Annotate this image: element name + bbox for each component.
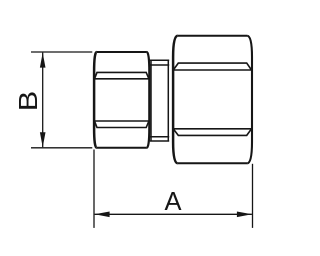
- hex edge line lower inner (right hex): [173, 128, 251, 130]
- dimension A extension line right: [252, 164, 254, 228]
- hex body large (right) silhouette top face: [178, 35, 248, 37]
- collar left vertical: [150, 60, 152, 141]
- svg-text:B: B: [15, 91, 43, 112]
- collar top outer line: [150, 59, 169, 61]
- dimension B extension line bottom: [31, 147, 92, 149]
- hex edge line lower outer (left hex): [95, 121, 149, 128]
- hex body small (left) silhouette top face: [97, 51, 147, 53]
- hex edge line lower inner (left hex): [95, 120, 149, 122]
- collar right vertical: [167, 60, 169, 141]
- hex edge line lower outer (right hex): [173, 129, 251, 136]
- hex body large (right) silhouette right edge: [247, 36, 252, 164]
- svg-text:A: A: [164, 188, 181, 216]
- hex body large (right) silhouette bottom face: [178, 162, 248, 164]
- dimension A arrow left: [95, 212, 110, 218]
- dimension B arrow bottom: [40, 132, 46, 147]
- dimension B extension line top: [31, 51, 92, 53]
- hex body large (right) silhouette left edge: [173, 36, 178, 164]
- dimension A line: [95, 213, 252, 215]
- hex body small (left) silhouette left edge: [94, 52, 97, 148]
- dimension A arrow right: [237, 212, 252, 218]
- collar bottom inner line: [150, 136, 169, 138]
- hex edge line upper outer (right hex): [173, 63, 251, 70]
- hex edge line upper inner (left hex): [95, 78, 149, 80]
- dimension B line: [42, 53, 44, 148]
- collar top inner line: [150, 64, 169, 66]
- hex edge line upper inner (right hex): [173, 69, 251, 71]
- hex edge line upper outer (left hex): [95, 72, 149, 78]
- dimension A extension line left: [93, 150, 95, 228]
- hex body small (left) silhouette bottom face: [97, 147, 147, 149]
- collar ring between hexes: [150, 60, 169, 141]
- collar bottom outer line: [150, 140, 169, 142]
- dimension B arrow top: [40, 53, 46, 68]
- hex body small (left) silhouette right edge: [147, 52, 150, 148]
